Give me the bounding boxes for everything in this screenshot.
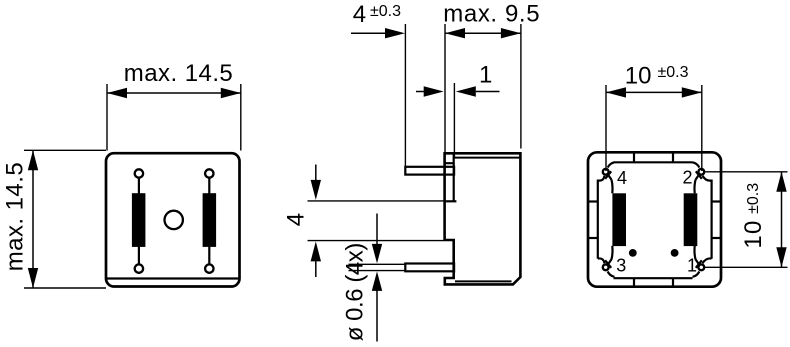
svg-text:±0.3: ±0.3 <box>370 3 401 20</box>
dimension max. 9.5: left arrowhead <box>445 28 465 38</box>
dimension 10 +-0.3 horizontal: dimension line <box>606 91 702 93</box>
dimension 4 (lead spacing): lower arrow <box>315 261 317 278</box>
side view flange inner wall <box>453 163 455 201</box>
dimension 10 +-0.3 vertical: extension line bottom <box>704 266 788 268</box>
back view hook pin 3 <box>605 246 613 269</box>
side view top lead <box>405 167 454 175</box>
back view body outline <box>588 152 721 286</box>
side view body outline <box>445 153 521 284</box>
dimension dia 0.6 (4x): lower arrow <box>376 291 378 342</box>
back view mold tick bottom-right <box>672 278 674 286</box>
dimension 4 (lead spacing): extension line upper <box>308 200 444 202</box>
svg-text:4: 4 <box>617 168 627 188</box>
svg-text:max. 9.5: max. 9.5 <box>443 0 540 27</box>
svg-text:4: 4 <box>283 213 310 226</box>
dimension max. 14.5 horizontal: right arrowhead <box>221 88 241 98</box>
front view wire pin link bottom-right <box>208 247 210 265</box>
dimension 1: extension line <box>453 83 455 157</box>
dimension max. 14.5 vertical: dimension line <box>32 150 34 288</box>
svg-text:10: 10 <box>625 62 652 89</box>
back view pin circle 1 <box>698 264 704 270</box>
side view bottom lip line <box>455 280 512 282</box>
back view corner fillet arcs pin 1 <box>693 258 712 276</box>
dimension 10 +-0.3 vertical: extension line top <box>704 171 788 173</box>
svg-text:1: 1 <box>479 62 492 89</box>
front view pin circle bottom-right <box>205 264 213 272</box>
svg-text:4: 4 <box>353 1 366 28</box>
dimension 4 (lead spacing): extension line lower <box>308 240 444 242</box>
front view center hole <box>165 211 183 229</box>
back view mold tick right-lower <box>712 237 721 239</box>
dimension max. 9.5: dimension line <box>445 32 521 34</box>
back view hook pin 1 <box>694 246 702 269</box>
back view corner fillet arcs pin 2 <box>693 162 712 180</box>
back view polarity dot right <box>671 249 679 257</box>
front view skirt line <box>106 277 240 279</box>
back view inner contour left edge <box>597 180 599 259</box>
dimension dia 0.6 (4x): witness line upper <box>349 263 406 265</box>
back view inner contour top edge <box>614 161 693 163</box>
dimension 1: right line with left-pointing arrowhead <box>476 91 500 93</box>
dimension 10 +-0.3 vertical: bottom arrowhead <box>776 247 786 267</box>
front view pin circle top-right <box>205 169 213 177</box>
dimension 4 +-0.3: extension line <box>404 24 406 167</box>
dimension max. 14.5 vertical: extension line bottom <box>24 287 106 289</box>
svg-text:ø 0.6 (4x): ø 0.6 (4x) <box>342 243 369 341</box>
side view step stub <box>445 200 457 202</box>
dimension max. 14.5 horizontal: dimension line <box>107 92 241 94</box>
dimension max. 14.5 horizontal: extension line right <box>240 84 242 151</box>
back view mold tick right-upper <box>712 200 721 202</box>
dimension 10 +-0.3 horizontal: extension line right <box>701 85 703 171</box>
svg-text:3: 3 <box>616 255 626 275</box>
back view hook pin 2 <box>694 170 702 193</box>
front view wire pin link top-right <box>208 178 210 194</box>
back view polarity dot left <box>629 249 637 257</box>
dimension max. 14.5 vertical: top arrowhead <box>28 150 38 170</box>
back view winding bar right <box>684 193 698 246</box>
dimension max. 14.5 horizontal: left arrowhead <box>107 88 127 98</box>
dimension 10 +-0.3 horizontal: extension line left <box>605 85 607 171</box>
front view pin circle top-left <box>135 169 143 177</box>
side view top lip line <box>454 157 521 159</box>
dimension max. 14.5 horizontal: extension line left <box>106 84 108 151</box>
dimension 10 +-0.3 vertical: top arrowhead <box>776 172 786 192</box>
back view corner fillet arcs pin 4 <box>598 162 615 180</box>
svg-text:±0.3: ±0.3 <box>658 64 689 81</box>
front view pin circle bottom-left <box>135 264 143 272</box>
back view winding bar left <box>612 193 626 246</box>
back view pin circle 3 <box>603 264 609 270</box>
front view winding bar left <box>132 193 146 247</box>
back view pin circle 4 <box>603 169 609 175</box>
svg-text:10: 10 <box>740 219 767 248</box>
back view pin circle 2 <box>698 169 704 175</box>
back view corner fillet arcs pin 3 <box>598 258 615 276</box>
svg-text:±0.3: ±0.3 <box>745 183 762 214</box>
back view inner contour right edge <box>710 180 712 259</box>
svg-text:max. 14.5: max. 14.5 <box>124 60 233 87</box>
front view wire pin link bottom-left <box>138 247 140 265</box>
dimension 4 (lead spacing): upper arrow <box>315 165 317 182</box>
svg-text:max. 14.5: max. 14.5 <box>2 162 29 271</box>
dimension max. 14.5 vertical: extension line top <box>24 149 106 151</box>
dimension 10 +-0.3 horizontal: left arrowhead <box>606 87 626 97</box>
dimension max. 9.5: right arrowhead <box>501 28 521 38</box>
front view body outline <box>106 153 240 286</box>
back view inner contour bottom edge <box>614 277 693 279</box>
dimension 4 +-0.3: dimension line with right arrowhead <box>351 32 386 34</box>
back view hook pin 4 <box>605 170 613 193</box>
back view mold tick left-upper <box>589 200 598 202</box>
side view top-left step box <box>445 153 454 163</box>
side view bottom lead <box>405 264 454 272</box>
dimension max. 9.5: extension line right <box>520 24 522 149</box>
dimension dia 0.6 (4x): witness line lower <box>349 270 406 272</box>
front view winding bar right <box>203 193 217 247</box>
dimension dia 0.6 (4x): upper arrow <box>376 214 378 246</box>
back view mold tick top-left <box>633 153 635 162</box>
front view wire pin link top-left <box>138 178 140 194</box>
back view mold tick left-lower <box>589 237 598 239</box>
back view mold tick bottom-left <box>633 278 635 286</box>
dimension max. 9.5: extension line left <box>444 24 446 152</box>
dimension 1: left line with right-pointing arrowhead <box>416 91 425 93</box>
back view mold tick top-right <box>672 153 674 162</box>
dimension 10 +-0.3 horizontal: right arrowhead <box>682 87 702 97</box>
dimension max. 14.5 vertical: bottom arrowhead <box>28 268 38 288</box>
svg-text:1: 1 <box>687 256 697 276</box>
svg-text:2: 2 <box>683 168 693 188</box>
dimension 10 +-0.3 vertical: dimension line <box>781 172 783 267</box>
